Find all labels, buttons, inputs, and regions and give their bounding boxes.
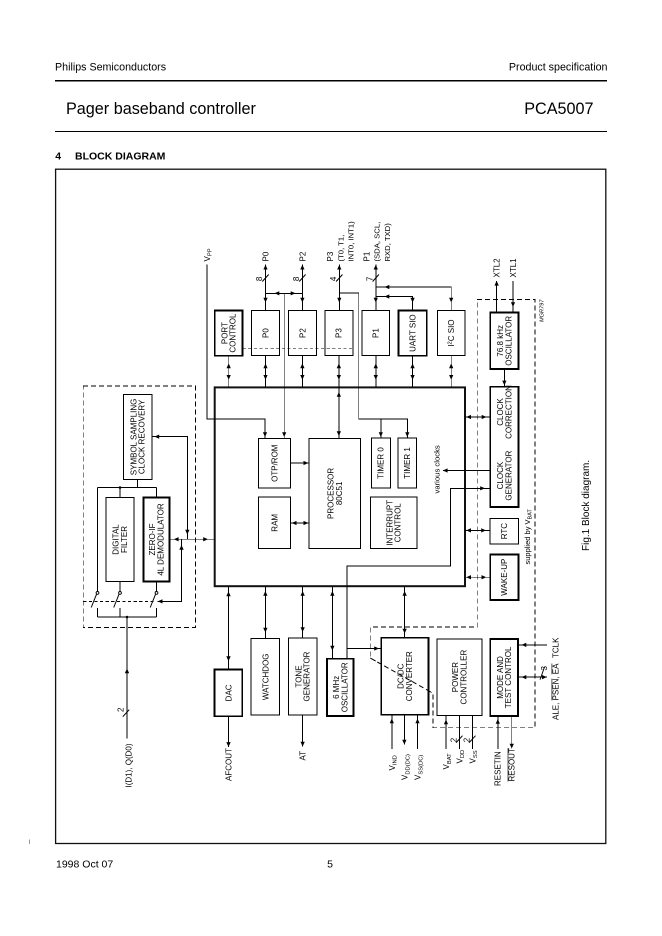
svg-text:P2: P2 bbox=[298, 328, 307, 338]
svg-text:P1: P1 bbox=[372, 328, 381, 338]
svg-text:OTP/ROM: OTP/ROM bbox=[270, 444, 279, 482]
svg-text:CONTROL: CONTROL bbox=[394, 503, 403, 543]
svg-text:P3: P3 bbox=[335, 328, 344, 338]
svg-text:WATCHDOG: WATCHDOG bbox=[261, 653, 270, 700]
svg-text:Philips Semiconductors: Philips Semiconductors bbox=[55, 62, 166, 74]
svg-text:2: 2 bbox=[463, 737, 472, 742]
svg-text:RESETIN: RESETIN bbox=[494, 751, 503, 786]
svg-text:P2: P2 bbox=[298, 251, 307, 261]
svg-text:RTC: RTC bbox=[500, 523, 509, 540]
svg-text:DAC: DAC bbox=[224, 684, 233, 701]
svg-text:(SDA, SCL,: (SDA, SCL, bbox=[373, 222, 382, 262]
svg-text:TIMER 0: TIMER 0 bbox=[377, 447, 386, 479]
svg-text:BLOCK DIAGRAM: BLOCK DIAGRAM bbox=[75, 151, 166, 163]
svg-text:CORRECTION: CORRECTION bbox=[504, 385, 513, 439]
svg-text:CONVERTER: CONVERTER bbox=[405, 651, 414, 701]
svg-text:ALE, PSEN, EA: ALE, PSEN, EA bbox=[552, 663, 561, 720]
svg-text:4: 4 bbox=[55, 151, 61, 163]
svg-text:CONTROL: CONTROL bbox=[229, 313, 238, 353]
svg-text:P1: P1 bbox=[362, 251, 371, 261]
svg-text:AFCOUT: AFCOUT bbox=[224, 748, 233, 781]
svg-text:CLOCK RECOVERY: CLOCK RECOVERY bbox=[138, 399, 147, 474]
svg-text:AT: AT bbox=[299, 751, 308, 761]
svg-text:3: 3 bbox=[540, 666, 549, 671]
svg-text:RAM: RAM bbox=[270, 514, 279, 532]
svg-text:(T0, T1,: (T0, T1, bbox=[336, 235, 345, 262]
svg-text:GENERATOR: GENERATOR bbox=[504, 450, 513, 500]
svg-text:FILTER: FILTER bbox=[120, 526, 129, 553]
svg-text:80C51: 80C51 bbox=[335, 481, 344, 505]
svg-text:P3: P3 bbox=[326, 251, 335, 261]
svg-text:4L DEMODULATOR: 4L DEMODULATOR bbox=[157, 503, 166, 576]
svg-text:7: 7 bbox=[365, 276, 374, 281]
svg-text:1998 Oct 07: 1998 Oct 07 bbox=[56, 859, 113, 871]
svg-text:RESOUT: RESOUT bbox=[508, 748, 517, 781]
svg-text:P0: P0 bbox=[261, 328, 270, 338]
svg-text:TIMER 1: TIMER 1 bbox=[403, 447, 412, 479]
svg-text:MGR797: MGR797 bbox=[540, 299, 546, 322]
svg-text:RXD, TXD): RXD, TXD) bbox=[383, 223, 392, 262]
svg-text:TEST CONTROL: TEST CONTROL bbox=[504, 646, 513, 708]
svg-text:P0: P0 bbox=[261, 251, 270, 261]
svg-text:2: 2 bbox=[450, 737, 459, 742]
svg-text:OSCILLATOR: OSCILLATOR bbox=[340, 662, 349, 712]
svg-text:INT0, INT1): INT0, INT1) bbox=[347, 221, 356, 262]
svg-text:CONTROLLER: CONTROLLER bbox=[460, 650, 469, 705]
svg-text:UART SIO: UART SIO bbox=[408, 314, 417, 352]
svg-text:PCA5007: PCA5007 bbox=[524, 100, 593, 118]
svg-text:various clocks: various clocks bbox=[433, 445, 442, 493]
svg-text:I(D1), Q(D0): I(D1), Q(D0) bbox=[125, 743, 134, 787]
svg-text:XTL2: XTL2 bbox=[493, 258, 502, 278]
svg-text:2: 2 bbox=[116, 707, 125, 712]
svg-text:GENERATOR: GENERATOR bbox=[303, 651, 312, 701]
svg-text:OSCILLATOR: OSCILLATOR bbox=[505, 316, 514, 366]
svg-text:5: 5 bbox=[327, 859, 333, 871]
svg-text:Fig.1 Block diagram.: Fig.1 Block diagram. bbox=[581, 460, 592, 551]
svg-text:Pager baseband controller: Pager baseband controller bbox=[66, 100, 256, 118]
svg-text:Product specification: Product specification bbox=[509, 62, 608, 74]
svg-text:8: 8 bbox=[255, 276, 264, 281]
svg-text:4: 4 bbox=[329, 276, 338, 281]
svg-text:TCLK: TCLK bbox=[552, 637, 561, 658]
svg-text:WAKE-UP: WAKE-UP bbox=[500, 559, 509, 596]
svg-text:XTL1: XTL1 bbox=[509, 258, 518, 278]
svg-text:8: 8 bbox=[292, 276, 301, 281]
